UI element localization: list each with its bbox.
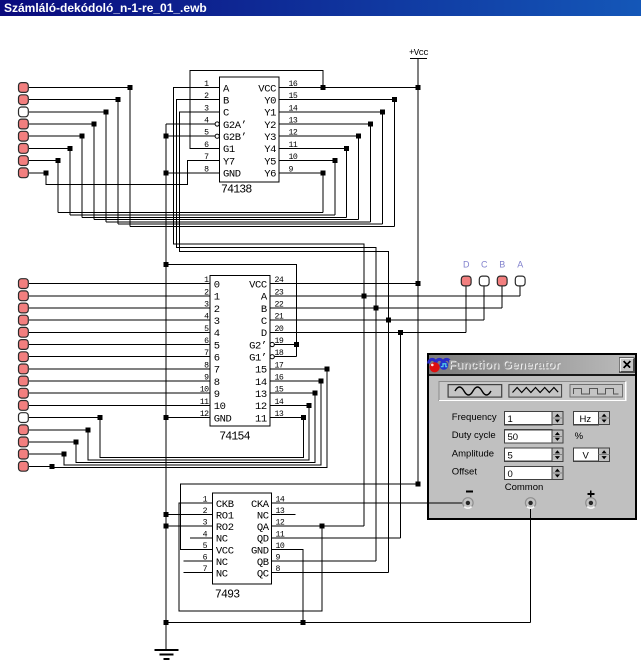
decoder U1 74138 body [220, 77, 280, 182]
wire bus Y2 horizontal [106, 221, 370, 223]
svg-text:C: C [481, 260, 488, 270]
svg-text:5: 5 [508, 451, 513, 462]
wire U2 pin 15 output [270, 392, 315, 394]
indicator terminal Q5 (output 4 probe) [19, 327, 29, 337]
indicator terminal Q3 (output 2 probe) [19, 303, 29, 313]
svg-text:3: 3 [204, 301, 209, 310]
svg-text:50: 50 [508, 432, 519, 443]
wire Q3 to U2 pin 3 [29, 307, 192, 309]
svg-text:7: 7 [204, 153, 209, 162]
svg-text:G2A’: G2A’ [223, 120, 247, 132]
svg-text:G2B’: G2B’ [223, 132, 247, 144]
wire Y5 output from U1 pin 10 [279, 160, 335, 162]
svg-text:13: 13 [255, 389, 267, 401]
wire Q1 to U2 pin 1 [29, 283, 192, 285]
indicator terminal Q8 (output 7 probe) [19, 364, 29, 374]
svg-text:GND: GND [214, 413, 232, 425]
wire U3 QA pin12 to net A [272, 525, 365, 527]
U2 pin 8 stub [192, 368, 210, 370]
junction node B/U2 [374, 306, 379, 311]
wire Y3 output from U1 pin 12 [279, 135, 359, 137]
wire Y2 output from U1 pin 13 [279, 123, 371, 125]
svg-text:RO2: RO2 [216, 522, 234, 534]
wire U3 GND pin10 to ground rail [272, 550, 303, 623]
svg-text:7493: 7493 [215, 589, 240, 602]
junction node P6 [68, 146, 73, 151]
wire Q5 to U2 pin 5 [29, 331, 192, 333]
junction node +Vcc branch [415, 481, 420, 486]
junction node ground/U1 GND [164, 170, 169, 175]
junction node P7 [56, 158, 61, 163]
U3 pin 7 stub [184, 572, 213, 574]
wire net C vertical [388, 252, 390, 573]
svg-text:24: 24 [275, 276, 284, 285]
wire U2 pin 21 address C [290, 319, 485, 321]
junction node Q16 [50, 464, 55, 469]
wire U3 QD pin11 to net D [272, 537, 401, 539]
wire Y2 vertical [370, 124, 372, 222]
wire Y0 vertical [393, 100, 395, 227]
indicator terminal Q7 (output 6 probe) [19, 352, 29, 362]
U2 pin 1 stub [192, 283, 210, 285]
XFG1 plus label [587, 491, 594, 498]
wire ground net vertical [165, 124, 167, 650]
U1 pin 8 stub [201, 172, 220, 174]
U1 pin 9 stub [279, 172, 299, 174]
wire Q15 to junction [29, 453, 64, 455]
svg-text:Y2: Y2 [264, 120, 276, 132]
U2 pin 9 stub [192, 380, 210, 382]
indicator terminal Q11 (output 10 probe) [19, 401, 29, 411]
svg-text:8: 8 [204, 361, 209, 370]
U1 pin 16 stub [279, 87, 299, 89]
wire Q10 to U2 pin 10 [29, 392, 192, 394]
junction node Y5 [332, 158, 337, 163]
svg-text:Function Generator: Function Generator [449, 358, 561, 372]
wire Q14 to junction [29, 441, 76, 443]
svg-text:8: 8 [204, 165, 209, 174]
svg-text:B: B [499, 260, 505, 270]
XFG1 Frequency field [505, 412, 552, 425]
svg-text:GND: GND [223, 169, 241, 181]
indicator terminal P3 (Y2 probe) [19, 107, 29, 117]
svg-text:QD: QD [257, 534, 269, 546]
svg-text:7: 7 [203, 565, 208, 574]
svg-text:6: 6 [214, 353, 220, 365]
wire Q14 under-route [76, 393, 315, 463]
svg-text:Y3: Y3 [264, 132, 276, 144]
junction node ground/U2 GND [164, 415, 169, 420]
svg-text:1: 1 [214, 292, 220, 304]
wire bus Y4 horizontal [82, 216, 347, 218]
junction node P1 [128, 85, 133, 90]
wire U2 pin24 VCC to +Vcc rail [290, 283, 418, 285]
U2 pin 6 stub [192, 344, 210, 346]
U3 pin 13 stub [272, 514, 296, 516]
U2 pin 10 stub [192, 392, 210, 394]
U2 pin 16 stub [270, 380, 290, 382]
XFG1 close button [620, 358, 634, 372]
svg-text:10: 10 [214, 401, 226, 413]
wire bus Y5 horizontal [70, 214, 335, 216]
wire Q16 to junction [29, 465, 52, 467]
indicator terminal D [461, 276, 471, 286]
svg-text:18: 18 [275, 349, 284, 358]
XFG1 Offset field [505, 466, 552, 479]
svg-text:16: 16 [289, 80, 298, 89]
U2 pin 14 stub [270, 404, 290, 406]
decoder U2 74154 body [210, 276, 270, 427]
svg-text:3: 3 [214, 316, 220, 328]
svg-text:+Vcc: +Vcc [409, 48, 428, 58]
wire P5 vertical to bus [81, 136, 83, 217]
wire U2 pin 16 output [270, 380, 321, 382]
U1 pin 10 stub [279, 160, 299, 162]
svg-text:23: 23 [275, 288, 284, 297]
svg-text:RO1: RO1 [216, 510, 234, 522]
junction node P2 [116, 97, 121, 102]
svg-text:QC: QC [257, 569, 269, 581]
wire XFG1 common to ground rail [529, 506, 531, 623]
XFG1 minus terminal [463, 498, 473, 508]
U1 pin 1 stub [201, 87, 220, 89]
XFG1 Duty cycle field [505, 430, 552, 443]
wire U1 pin5 G2B to ground net [166, 135, 215, 137]
junction node Y1 [380, 109, 385, 114]
wire net B from U1 pin2 [177, 100, 376, 260]
indicator terminal P2 (Y1 probe) [19, 95, 29, 105]
wire bus Y6 horizontal [58, 212, 323, 214]
indicator terminal P7 (Y6 probe) [19, 156, 29, 166]
junction node U2 pin 14 [307, 403, 312, 408]
U1 pin 2 stub [201, 99, 220, 101]
wire bus Y1 horizontal [118, 223, 382, 225]
junction node Y2 [368, 122, 373, 127]
U1 pin 3 stub [201, 111, 220, 113]
wire U2 pin 17 output [270, 368, 327, 370]
svg-text:7: 7 [204, 349, 209, 358]
wire QA feedback to CKB [179, 503, 322, 611]
svg-text:Y5: Y5 [264, 156, 276, 168]
svg-text:C: C [261, 316, 267, 328]
svg-text:B: B [261, 304, 267, 316]
XFG1 triangle wave button [509, 385, 562, 398]
svg-text:5: 5 [203, 542, 208, 551]
XFG1 V unit field [574, 448, 599, 461]
svg-text:Hz: Hz [580, 414, 592, 425]
junction node ground rail [164, 620, 169, 625]
wire ground net to U2 G2/G1 enables [166, 265, 297, 357]
junction node QA [320, 524, 325, 529]
U1 pin 11 stub [279, 147, 299, 149]
indicator terminal Q16 (output 15 probe) [19, 461, 29, 471]
wire P4 vertical to bus [93, 124, 95, 220]
svg-text:C: C [223, 108, 229, 120]
wire P5 to junction [29, 135, 82, 137]
wire P7 vertical to bus [57, 161, 59, 213]
svg-text:4: 4 [214, 328, 220, 340]
svg-text:3: 3 [204, 104, 209, 113]
wire Y4 vertical [346, 148, 348, 217]
indicator terminal Q1 (output 0 probe) [19, 279, 29, 289]
svg-text:CKB: CKB [216, 499, 234, 511]
wire U2 pin 13 output [270, 417, 304, 419]
U2 pin 18 stub [270, 356, 285, 358]
wire Y6 vertical [322, 173, 324, 213]
wire net D vertical [400, 332, 402, 538]
svg-text:1: 1 [508, 414, 513, 425]
wire Y4 output from U1 pin 11 [279, 147, 347, 149]
wire U2 pin 22 address B [290, 307, 503, 309]
svg-text:5: 5 [204, 325, 209, 334]
U2 pin 11 stub [192, 404, 210, 406]
svg-text:10: 10 [200, 386, 209, 395]
svg-text:7: 7 [214, 365, 220, 377]
wire U3 RO2 to ground net [166, 525, 212, 527]
svg-text:6: 6 [204, 141, 209, 150]
U2 pin 23 stub [270, 295, 290, 297]
svg-text:4: 4 [204, 313, 209, 322]
junction node Y4 [344, 146, 349, 151]
wire ground net to U2 pin12 GND [166, 417, 192, 419]
svg-text:19: 19 [275, 337, 284, 346]
wire A indicator drop [519, 286, 521, 295]
svg-text:6: 6 [203, 554, 208, 563]
junction node Q13 [86, 427, 91, 432]
junction node Y0 [392, 97, 397, 102]
junction node U2 pin 15 [313, 391, 318, 396]
indicator terminal Q9 (output 8 probe) [19, 376, 29, 386]
indicator terminal P8 (Y7 probe) [19, 168, 29, 178]
XFG1 Hz unit field [574, 412, 599, 425]
counter U3 7493 body [212, 493, 271, 584]
svg-text:Y4: Y4 [264, 144, 276, 156]
svg-text:6: 6 [204, 337, 209, 346]
svg-text:11: 11 [200, 398, 209, 407]
wire U2 pin19 G2 to enable net [285, 344, 297, 346]
indicator terminal P5 (Y4 probe) [19, 131, 29, 141]
junction node Y6 [320, 170, 325, 175]
U2 pin 19 stub [270, 344, 285, 346]
svg-text:CKA: CKA [251, 499, 270, 511]
wire Y6 output from U1 pin 9 [279, 172, 323, 174]
indicator terminal P1 (Y0 probe) [19, 83, 29, 93]
wire Q15 under-route [64, 381, 321, 465]
U2 pin 4 stub [192, 319, 210, 321]
wire P1 vertical to bus [129, 88, 131, 227]
XFG1 common terminal [525, 498, 535, 508]
svg-text:9: 9 [204, 374, 209, 383]
svg-text:VCC: VCC [216, 545, 234, 557]
XFG1 minus label [466, 491, 473, 493]
wire Q7 to U2 pin 7 [29, 356, 192, 358]
indicator terminal Q10 (output 9 probe) [19, 388, 29, 398]
wire U2 pin 14 output [270, 404, 309, 406]
junction node Q12 [98, 415, 103, 420]
wire P6 to junction [29, 147, 70, 149]
U1 pin 15 stub [279, 99, 299, 101]
svg-text:14: 14 [255, 377, 267, 389]
indicator terminal A [515, 276, 525, 286]
XFG1 title bar [429, 355, 635, 374]
junction node D/U2 [398, 330, 403, 335]
XFG1 square wave button [570, 385, 623, 398]
svg-text:2: 2 [214, 304, 220, 316]
U2 pin 17 stub [270, 368, 290, 370]
svg-text:Y0: Y0 [264, 96, 276, 108]
junction node Vcc at U1 pin16 [320, 85, 325, 90]
U3 pin 5 stub [193, 549, 212, 551]
indicator terminal Q2 (output 1 probe) [19, 291, 29, 301]
wire U1 VCC pin16 to +Vcc rail [299, 87, 418, 89]
U3 pin 6 stub [184, 560, 213, 562]
wire U1 pin4 G2A to ground net [166, 123, 215, 125]
wire Q11 to U2 pin 11 [29, 404, 192, 406]
indicator terminal Q14 (output 13 probe) [19, 437, 29, 447]
svg-text:%: % [575, 431, 584, 442]
wire P2 to junction [29, 99, 118, 101]
indicator terminal P6 (Y5 probe) [19, 144, 29, 154]
wire bus Y3 horizontal [94, 219, 358, 221]
junction node U2 pin 16 [319, 379, 324, 384]
indicator terminal Q6 (output 5 probe) [19, 340, 29, 350]
wire P4 to junction [29, 123, 94, 125]
svg-text:NC: NC [216, 569, 228, 581]
wire Q4 to U2 pin 4 [29, 319, 192, 321]
wire net A vertical [363, 244, 365, 526]
XFG1 icon [429, 359, 451, 372]
junction node ground/G2B [164, 134, 169, 139]
svg-text:22: 22 [275, 301, 284, 310]
U2 pin 22 stub [270, 307, 290, 309]
wire P3 vertical to bus [105, 112, 107, 222]
wire U3 RO1 to ground net [166, 514, 212, 516]
svg-text:Duty cycle: Duty cycle [452, 430, 496, 441]
U2 pin 3 stub [192, 307, 210, 309]
U3 pin 1 stub [193, 502, 212, 504]
U2 pin 15 stub [270, 392, 290, 394]
wire P6 vertical to bus [69, 148, 71, 215]
junction node +Vcc/U2 [415, 281, 420, 286]
indicator terminal C [479, 276, 489, 286]
svg-text:74138: 74138 [221, 184, 252, 197]
U2 pin 21 stub [270, 319, 290, 321]
svg-text:2: 2 [204, 288, 209, 297]
svg-text:VCC: VCC [258, 83, 276, 95]
svg-text:Y6: Y6 [264, 169, 276, 181]
XFG1 Amplitude field [505, 448, 552, 461]
svg-text:12: 12 [255, 401, 267, 413]
wire P8 to junction [29, 172, 46, 174]
indicator terminal Q12 (output 11 probe) [19, 413, 29, 423]
indicator terminal P4 (Y3 probe) [19, 119, 29, 129]
indicator terminal Q13 (output 12 probe) [19, 425, 29, 435]
svg-text:15: 15 [255, 365, 267, 377]
svg-text:Amplitude: Amplitude [452, 448, 494, 459]
wire U2 pin 20 address D [290, 331, 467, 333]
svg-text:5: 5 [214, 340, 220, 352]
junction node P4 [92, 122, 97, 127]
U3 pin 4 stub [190, 537, 213, 539]
junction node +Vcc/U1 [415, 85, 420, 90]
svg-text:1: 1 [203, 496, 208, 505]
svg-text:20: 20 [275, 325, 284, 334]
svg-text:NC: NC [216, 534, 228, 546]
wire D indicator drop [465, 286, 467, 332]
wire Y3 vertical [358, 136, 360, 219]
junction node U2 pin 13 [301, 415, 306, 420]
wire P2 vertical to bus [117, 100, 119, 225]
junction node Q14 [74, 439, 79, 444]
junction node ground branch [164, 262, 169, 267]
wire U3 CKA into XFG1 minus terminal [428, 502, 464, 504]
svg-text:QB: QB [257, 557, 269, 569]
junction node G2 enable [294, 342, 299, 347]
svg-text:0: 0 [214, 279, 220, 291]
svg-text:8: 8 [214, 377, 220, 389]
XFG1 waveform selector panel [439, 381, 626, 400]
svg-text:GND: GND [251, 545, 269, 557]
wire C indicator drop [483, 286, 485, 320]
junction node P5 [80, 134, 85, 139]
svg-text:G1’: G1’ [249, 353, 267, 365]
wire net A from U1 pin1 [174, 88, 365, 261]
svg-text:Common: Common [505, 482, 544, 493]
wire Y1 output from U1 pin 14 [279, 111, 382, 113]
wire Q16 under-route [52, 369, 327, 468]
junction node ground/RO1 [164, 512, 169, 517]
svg-text:1: 1 [204, 276, 209, 285]
wire P3 to junction [29, 111, 106, 113]
ground symbol [155, 650, 179, 659]
junction node A/U2 [362, 293, 367, 298]
svg-text:21: 21 [275, 313, 284, 322]
svg-text:74154: 74154 [219, 431, 250, 444]
wire Q9 to U2 pin 9 [29, 380, 192, 382]
wire Y0 output from U1 pin 15 [279, 99, 394, 101]
wire P8 to Y7 route [46, 161, 200, 185]
wire U2 pin 23 address A [290, 295, 521, 297]
svg-text:NC: NC [216, 557, 228, 569]
junction node C/U2 [386, 318, 391, 323]
wire U1 pin8 GND to ground net [166, 172, 200, 174]
wire U3 QC pin8 to net C [272, 572, 389, 574]
svg-text:G1: G1 [223, 144, 235, 156]
U2 pin 12 stub [192, 417, 210, 419]
junction node U2 pin 17 [325, 366, 330, 371]
function generator XFG1 window [428, 354, 636, 519]
wire Q8 to U2 pin 8 [29, 368, 192, 370]
svg-text:13: 13 [276, 507, 285, 516]
wire Y1 vertical [381, 112, 383, 224]
wire bus Y0 horizontal [130, 226, 394, 228]
U2 pin 20 stub [270, 331, 290, 333]
U2 pin 24 stub [270, 283, 290, 285]
svg-text:Offset: Offset [452, 467, 478, 478]
U1 pin 13 stub [279, 123, 299, 125]
U1 pin 5 stub [201, 135, 216, 137]
wire Q6 to U2 pin 6 [29, 344, 192, 346]
wire P1 to junction [29, 87, 130, 89]
wire Q12 under-route [100, 418, 303, 458]
wire Q2 to U2 pin 2 [29, 295, 192, 297]
wire +Vcc to U3 VCC pin5 [180, 484, 418, 550]
junction node Y3 [356, 134, 361, 139]
U2 pin 5 stub [192, 331, 210, 333]
U1 pin 6 stub [201, 147, 220, 149]
wire Q12 to junction [29, 417, 100, 419]
wire +Vcc vertical rail [417, 59, 419, 484]
